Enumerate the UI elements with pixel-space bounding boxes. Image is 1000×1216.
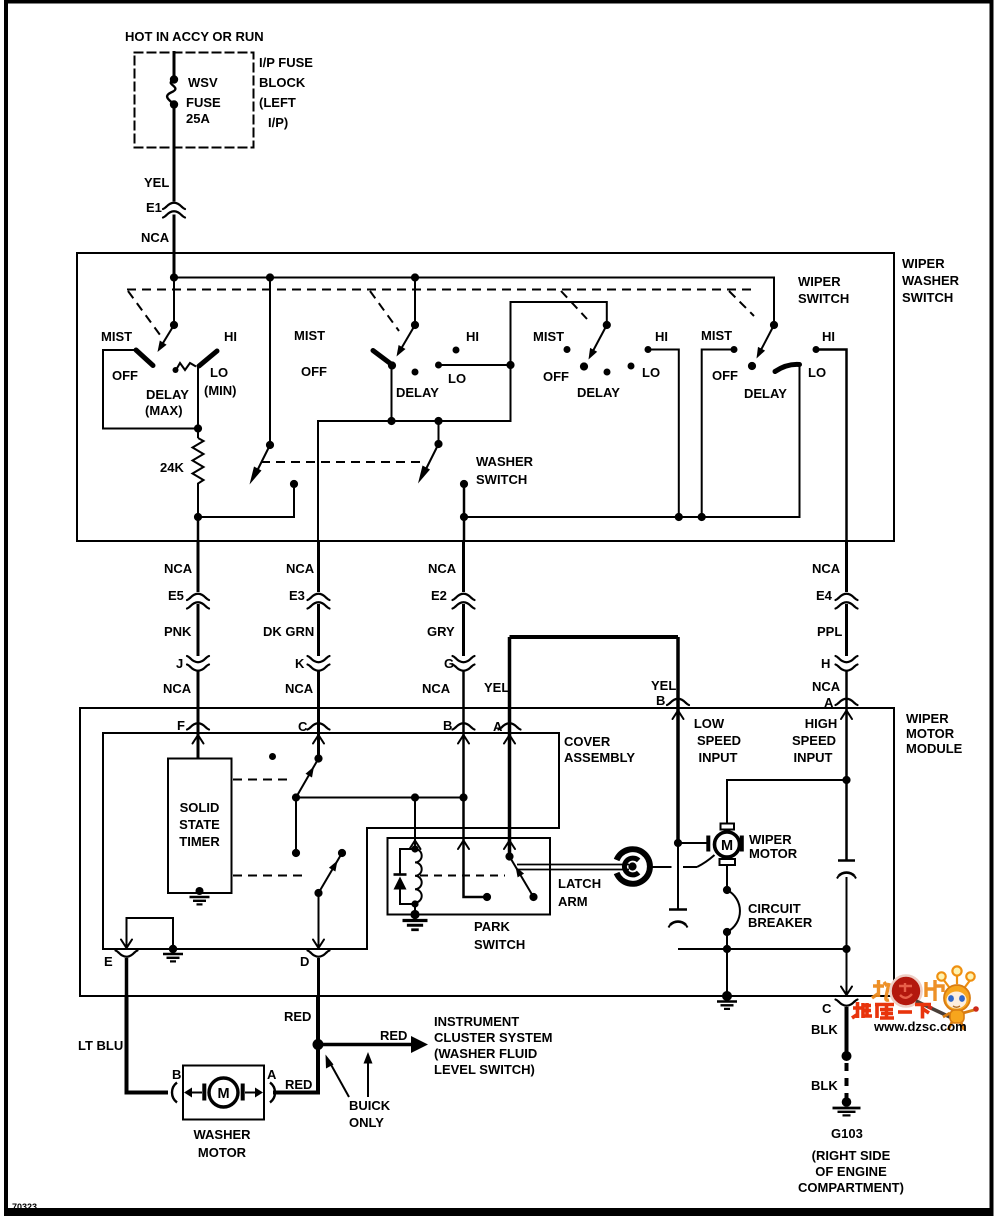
svg-text:LO: LO xyxy=(642,365,660,380)
svg-text:COMPARTMENT): COMPARTMENT) xyxy=(798,1180,904,1195)
svg-text:NCA: NCA xyxy=(812,561,841,576)
svg-text:DELAY: DELAY xyxy=(744,386,787,401)
svg-text:SWITCH: SWITCH xyxy=(476,472,527,487)
linkage dashed diagonal group3 xyxy=(561,291,587,319)
labels wire4 xyxy=(812,561,842,710)
svg-text:SOLID: SOLID xyxy=(180,800,220,815)
timer ground xyxy=(190,887,210,904)
node group4 HI contact xyxy=(813,346,820,353)
svg-text:WIPER: WIPER xyxy=(798,274,841,289)
wire motor bottom xyxy=(726,865,728,890)
wire washer1 contact branch xyxy=(198,484,294,517)
wire ground rail xyxy=(678,948,847,950)
node relay1 C contact xyxy=(314,754,322,762)
connector C module output xyxy=(836,1000,858,1006)
svg-text:LO: LO xyxy=(448,371,466,386)
connector B module xyxy=(667,699,689,705)
connector washer B xyxy=(172,1083,177,1103)
svg-text:OF ENGINE: OF ENGINE xyxy=(815,1164,887,1179)
wire washer2 pivot feed xyxy=(438,421,440,444)
svg-text:C: C xyxy=(822,1001,832,1016)
svg-text:G: G xyxy=(444,656,454,671)
svg-text:PPL: PPL xyxy=(817,624,842,639)
svg-text:B: B xyxy=(656,693,665,708)
switch group3 actuator arrow xyxy=(589,325,607,360)
wire washer1 feed xyxy=(269,278,271,446)
washer motor arrow left xyxy=(184,1088,202,1098)
label RIGHT SIDE OF ENGINE COMPARTMENT xyxy=(798,1148,904,1195)
switch group4 actuator arrow xyxy=(757,325,775,359)
svg-text:MOTOR: MOTOR xyxy=(749,846,798,861)
labels wire1 xyxy=(163,561,193,733)
svg-text:INSTRUMENT: INSTRUMENT xyxy=(434,1014,519,1029)
wire group4 feed xyxy=(773,325,775,326)
wire fuse to E1 xyxy=(173,105,176,201)
svg-text:(WASHER FLUID: (WASHER FLUID xyxy=(434,1046,537,1061)
svg-text:RED: RED xyxy=(284,1009,311,1024)
svg-text:BLOCK: BLOCK xyxy=(259,75,306,90)
switch group2 actuator arrow xyxy=(397,325,416,357)
node rail517 g3hi xyxy=(675,513,683,521)
label LOW SPEED INPUT xyxy=(694,716,741,765)
wire E down xyxy=(125,958,129,996)
arrow out C xyxy=(841,987,852,996)
node park arm pivot xyxy=(529,893,537,901)
svg-text:J: J xyxy=(176,656,183,671)
switch park arm xyxy=(510,857,534,898)
connector E3 xyxy=(308,594,330,609)
svg-text:E1: E1 xyxy=(146,200,162,215)
svg-text:HI: HI xyxy=(655,329,668,344)
connector E4 xyxy=(836,594,858,609)
label WIPER MOTOR xyxy=(749,832,798,861)
cover ground node xyxy=(163,945,183,962)
watermark zhao glyph xyxy=(872,980,889,1000)
wire YEL A vertical xyxy=(508,637,512,857)
wire YEL B vertical xyxy=(676,637,680,843)
svg-text:SWITCH: SWITCH xyxy=(902,290,953,305)
switch group4 arm DELAY-LO xyxy=(775,364,800,371)
wire resistor to node xyxy=(197,487,199,517)
wire breaker to rail xyxy=(726,932,728,949)
svg-text:E3: E3 xyxy=(289,588,305,603)
label WASHER MOTOR xyxy=(193,1127,251,1160)
svg-text:A: A xyxy=(493,719,503,734)
svg-text:RED: RED xyxy=(380,1028,407,1043)
connector H xyxy=(836,656,858,671)
svg-text:H: H xyxy=(821,656,830,671)
svg-text:ONLY: ONLY xyxy=(349,1115,384,1130)
wire D down xyxy=(317,958,320,996)
wire fuse feed top xyxy=(173,53,176,78)
svg-text:NCA: NCA xyxy=(286,561,315,576)
node group2 DELAY contact xyxy=(412,369,419,376)
wire RED washer to module xyxy=(273,996,318,1093)
node relay1 lower end xyxy=(292,849,300,857)
node group3 MIST contact xyxy=(564,346,571,353)
label PARK SWITCH xyxy=(474,919,525,952)
wire relay1 pivot down xyxy=(295,798,297,854)
svg-text:RED: RED xyxy=(285,1077,312,1092)
watermark mascot stick band xyxy=(928,1007,932,1009)
wire group1 output xyxy=(197,366,199,438)
connector C xyxy=(308,723,330,729)
dashed timer link1 xyxy=(233,779,291,781)
wiper motor module box xyxy=(80,708,894,996)
diode clamp branch xyxy=(394,849,416,904)
wire E2/GRY vertical xyxy=(464,541,488,897)
wire top bus xyxy=(174,278,774,327)
svg-text:70323: 70323 xyxy=(12,1202,37,1212)
arrow out D xyxy=(313,940,324,949)
watermark mascot body xyxy=(943,1006,979,1030)
svg-text:PNK: PNK xyxy=(164,624,192,639)
svg-text:HIGH: HIGH xyxy=(805,716,838,731)
svg-text:F: F xyxy=(177,718,185,733)
svg-text:YEL: YEL xyxy=(144,175,169,190)
buick pointer left xyxy=(326,1055,350,1098)
svg-text:B: B xyxy=(443,718,452,733)
inductor park coil xyxy=(415,849,422,903)
watermark mascot head xyxy=(944,985,970,1011)
node rail797 B xyxy=(459,793,467,801)
svg-text:BUICK: BUICK xyxy=(349,1098,391,1113)
latch arm rod xyxy=(517,865,629,870)
switch group2 arm xyxy=(373,351,391,365)
svg-text:OFF: OFF xyxy=(301,364,327,379)
wire E3/DKGRN vertical xyxy=(317,541,320,757)
svg-text:WASHER: WASHER xyxy=(902,273,960,288)
svg-text:OFF: OFF xyxy=(712,368,738,383)
svg-text:BREAKER: BREAKER xyxy=(748,915,813,930)
node coil top xyxy=(411,845,418,852)
node bus washer1 junction xyxy=(266,273,274,281)
svg-text:(MIN): (MIN) xyxy=(204,383,237,398)
wire E4/PPL vertical xyxy=(845,541,848,860)
svg-text:K: K xyxy=(295,656,305,671)
svg-text:I/P): I/P) xyxy=(268,115,288,130)
wiper motor symbol xyxy=(706,824,744,866)
park switch box xyxy=(388,838,551,915)
svg-text:COVER: COVER xyxy=(564,734,611,749)
wire group3 HI down xyxy=(648,350,679,518)
svg-text:E4: E4 xyxy=(816,588,833,603)
node breaker bottom xyxy=(723,928,731,936)
label I/P FUSE BLOCK (LEFT I/P) xyxy=(259,55,313,130)
svg-text:HOT IN ACCY OR RUN: HOT IN ACCY OR RUN xyxy=(125,29,264,44)
connector B cover xyxy=(453,723,475,729)
watermark pian glyph xyxy=(926,980,943,1001)
module ground xyxy=(717,991,737,1009)
svg-text:LO: LO xyxy=(210,365,228,380)
arrow park coil xyxy=(410,841,421,850)
wire C output xyxy=(846,949,848,995)
wire coil to park ground xyxy=(414,904,416,915)
node relay1 pivot xyxy=(292,793,300,801)
wire group2 feed xyxy=(414,278,416,326)
svg-text:WIPER: WIPER xyxy=(749,832,792,847)
svg-text:WIPER: WIPER xyxy=(906,711,949,726)
wire rail517 group4 arm xyxy=(464,365,800,518)
node coil bottom xyxy=(411,900,418,907)
connector J xyxy=(187,656,209,671)
wiper washer switch box xyxy=(77,253,894,541)
washer motor arrow right xyxy=(245,1088,263,1098)
svg-text:HI: HI xyxy=(224,329,237,344)
washer linkage dashed xyxy=(261,461,420,463)
svg-text:MIST: MIST xyxy=(701,328,732,343)
label WASHER SWITCH xyxy=(476,454,534,487)
resistor 24K xyxy=(193,438,204,487)
svg-text:STATE: STATE xyxy=(179,817,220,832)
svg-text:FUSE: FUSE xyxy=(186,95,221,110)
linkage dashed diagonal group1 xyxy=(128,291,163,339)
svg-text:BLK: BLK xyxy=(811,1078,838,1093)
label WSV FUSE 25A xyxy=(186,75,221,126)
svg-text:DELAY: DELAY xyxy=(396,385,439,400)
labels wire2 xyxy=(263,561,315,734)
node group1 bottom xyxy=(194,513,202,521)
svg-text:24K: 24K xyxy=(160,460,184,475)
wire rail y421 xyxy=(318,365,511,541)
svg-text:INPUT: INPUT xyxy=(699,750,738,765)
node RED junction xyxy=(313,1039,324,1050)
node park B contact xyxy=(483,893,491,901)
connector A cover xyxy=(499,723,521,729)
connector E2 xyxy=(453,594,475,609)
connector E5 xyxy=(187,594,209,609)
svg-text:NCA: NCA xyxy=(422,681,451,696)
svg-text:SWITCH: SWITCH xyxy=(798,291,849,306)
svg-text:LO: LO xyxy=(808,365,826,380)
node bus group2 junction xyxy=(411,273,419,281)
watermark mascot antennae xyxy=(937,966,974,987)
wire motor top to high speed xyxy=(727,780,847,824)
node relay1 nc contact xyxy=(269,753,276,760)
connector F xyxy=(187,723,209,729)
arrow into module A xyxy=(841,711,852,720)
wire park coil feed xyxy=(414,798,416,850)
wire group1 down to E5 xyxy=(197,517,200,541)
svg-text:NCA: NCA xyxy=(812,679,841,694)
ground G103 xyxy=(833,1097,861,1115)
node group3 LO contact xyxy=(628,363,635,370)
latch arm spiral xyxy=(617,849,650,884)
washer motor symbol xyxy=(202,1078,244,1107)
label COVER ASSEMBLY xyxy=(564,734,635,765)
svg-text:MIST: MIST xyxy=(294,328,325,343)
svg-text:LEVEL SWITCH): LEVEL SWITCH) xyxy=(434,1062,535,1077)
svg-text:HI: HI xyxy=(466,329,479,344)
wire E1 to wiper switch xyxy=(173,216,176,278)
svg-text:PARK: PARK xyxy=(474,919,510,934)
dashed timer link2 xyxy=(233,875,308,877)
node group2 common xyxy=(388,361,396,369)
node group2 feed xyxy=(411,321,419,329)
svg-text:INPUT: INPUT xyxy=(794,750,833,765)
svg-text:E: E xyxy=(104,954,113,969)
node group3 HI contact xyxy=(645,346,652,353)
svg-text:WASHER: WASHER xyxy=(193,1127,251,1142)
wire rail797 xyxy=(296,797,464,799)
svg-text:MOTOR: MOTOR xyxy=(906,726,955,741)
svg-text:TIMER: TIMER xyxy=(179,834,220,849)
switch washer1 arm xyxy=(250,445,271,485)
washer motor box xyxy=(183,1066,264,1120)
node group3 DELAY contact xyxy=(604,369,611,376)
node high speed junction xyxy=(842,776,850,784)
labels wire3 xyxy=(422,561,457,733)
svg-text:SWITCH: SWITCH xyxy=(474,937,525,952)
arrow park A xyxy=(504,841,515,850)
label LATCH ARM xyxy=(558,876,601,909)
wire BLK dashed xyxy=(845,1063,849,1100)
wire relay2 to D xyxy=(318,893,320,947)
wire group1 MIST loop xyxy=(103,350,198,429)
node group1 mist-join xyxy=(194,424,202,432)
arrow out E xyxy=(121,940,132,949)
label CIRCUIT BREAKER xyxy=(748,901,813,930)
switch group1 delay wiper squiggle xyxy=(173,363,197,373)
node relay2 contact xyxy=(338,849,346,857)
node group4 common xyxy=(748,362,756,370)
label BUICK ONLY xyxy=(349,1098,391,1130)
node rail797 parkcoil xyxy=(411,793,419,801)
wire YEL horizontal thick xyxy=(510,635,679,639)
svg-text:OFF: OFF xyxy=(543,369,569,384)
node rail group2 common xyxy=(387,417,395,425)
I/P fuse block dashed box xyxy=(135,53,254,148)
mechanical linkage dashed line xyxy=(127,289,757,291)
svg-text:CIRCUIT: CIRCUIT xyxy=(748,901,801,916)
svg-text:NCA: NCA xyxy=(164,561,193,576)
svg-text:YEL: YEL xyxy=(651,678,676,693)
svg-text:25A: 25A xyxy=(186,111,210,126)
svg-text:M: M xyxy=(721,838,733,854)
wire E jog to ground xyxy=(127,918,174,949)
connector A module xyxy=(836,699,858,705)
fuse WSV 25A xyxy=(167,75,178,108)
node group4 feed xyxy=(770,321,778,329)
connector E xyxy=(116,951,138,957)
svg-text:GRY: GRY xyxy=(427,624,455,639)
arrow into cover F xyxy=(193,735,204,744)
switch relay2 arm xyxy=(319,853,343,893)
svg-text:WASHER: WASHER xyxy=(476,454,534,469)
switch group1 arm HI-LO xyxy=(199,351,217,366)
svg-text:G103: G103 xyxy=(831,1126,863,1141)
node group4 MIST contact xyxy=(731,346,738,353)
svg-text:NCA: NCA xyxy=(163,681,192,696)
linkage dashed diagonal group4 xyxy=(729,291,754,316)
label WIPER WASHER SWITCH (outside box) xyxy=(902,256,960,305)
switch group1 actuator arrow xyxy=(158,325,175,352)
wire RED to instrument cluster xyxy=(318,1036,428,1053)
arrow into module B xyxy=(673,711,684,720)
svg-text:MIST: MIST xyxy=(533,329,564,344)
svg-text:ARM: ARM xyxy=(558,894,588,909)
wire riser to group3 feed xyxy=(511,302,607,365)
node group3 common xyxy=(580,362,588,370)
svg-text:OFF: OFF xyxy=(112,368,138,383)
latch link to motor xyxy=(651,855,715,867)
node washer2 pivot xyxy=(434,440,442,448)
svg-text:M: M xyxy=(217,1086,229,1102)
node rail breaker xyxy=(723,945,731,953)
wire group2 common output xyxy=(391,366,393,422)
circuit breaker xyxy=(727,890,740,932)
svg-text:MIST: MIST xyxy=(101,329,132,344)
dashed park linkage xyxy=(420,875,505,877)
switch relay1 arm xyxy=(296,759,319,798)
svg-text:NCA: NCA xyxy=(428,561,457,576)
arrow into cover A xyxy=(504,735,515,744)
node BLK splice xyxy=(842,1051,852,1061)
svg-text:WSV: WSV xyxy=(188,75,218,90)
svg-text:LATCH: LATCH xyxy=(558,876,601,891)
wire group2 LO to riser xyxy=(439,364,511,366)
node washer1 contact xyxy=(290,480,298,488)
arrow into cover B xyxy=(458,735,469,744)
svg-text:C: C xyxy=(298,719,308,734)
wire module ground drop xyxy=(726,949,728,996)
watermark magnifier xyxy=(891,976,922,1007)
solid state timer box xyxy=(168,759,232,894)
park ground xyxy=(403,910,428,930)
wire group4 HI to E4 xyxy=(816,350,847,542)
watermark mascot stick xyxy=(916,1001,952,1018)
svg-text:D: D xyxy=(300,954,309,969)
svg-text:B: B xyxy=(172,1067,181,1082)
svg-text:DELAY: DELAY xyxy=(577,385,620,400)
connector G xyxy=(453,656,475,671)
connector K xyxy=(308,656,330,671)
node gry rail junction xyxy=(460,513,468,521)
svg-text:CLUSTER SYSTEM: CLUSTER SYSTEM xyxy=(434,1030,552,1045)
label SOLID STATE TIMER xyxy=(179,800,220,849)
label HIGH SPEED INPUT xyxy=(792,716,837,765)
arrow park B xyxy=(458,841,469,850)
node bus-feed junction xyxy=(170,273,178,281)
node rail517 g4mist xyxy=(698,513,706,521)
svg-text:HI: HI xyxy=(822,329,835,344)
wire group4 MIST down xyxy=(702,350,734,518)
wire group3 feed arrow node xyxy=(603,321,611,329)
svg-text:SPEED: SPEED xyxy=(792,733,836,748)
wire LT BLU xyxy=(127,996,169,1093)
label INSTRUMENT CLUSTER SYSTEM xyxy=(434,1014,552,1077)
svg-text:WIPER: WIPER xyxy=(902,256,945,271)
svg-text:NCA: NCA xyxy=(285,681,314,696)
svg-text:LT BLU: LT BLU xyxy=(78,1038,123,1053)
label WIPER SWITCH (inside box) xyxy=(798,274,849,306)
capacitor high side xyxy=(837,861,856,950)
watermark weiku text xyxy=(852,1002,931,1019)
svg-text:DK GRN: DK GRN xyxy=(263,624,314,639)
node group2 HI contact xyxy=(453,347,460,354)
node relay2 pivot xyxy=(314,889,322,897)
node washer1 pivot xyxy=(266,441,274,449)
svg-text:A: A xyxy=(267,1067,277,1082)
svg-text:MODULE: MODULE xyxy=(906,741,963,756)
capacitor low side xyxy=(669,843,688,928)
svg-text:DELAY: DELAY xyxy=(146,387,189,402)
svg-text:(RIGHT SIDE: (RIGHT SIDE xyxy=(812,1148,891,1163)
svg-text:BLK: BLK xyxy=(811,1022,838,1037)
label WIPER MOTOR MODULE xyxy=(906,711,963,756)
linkage dashed diagonal group2 xyxy=(370,291,399,331)
node rail washer2 xyxy=(434,417,442,425)
